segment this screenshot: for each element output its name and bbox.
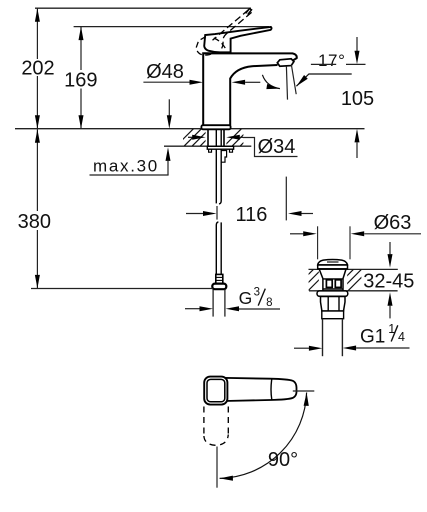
diameter 48 right arrow [232,80,246,85]
diameter 34 leader [243,138,298,157]
G 1 1/4 label and arrows [294,347,310,349]
deck hatching left of faucet shank [176,129,218,147]
waste cap dome [318,260,348,265]
32-45 top arrow [389,242,391,254]
svg-text:G1: G1 [360,327,385,348]
stud break centre segment [216,206,218,220]
handle pivot cap inner [207,379,225,401]
hose nut [212,284,226,290]
202 dimension line [36,8,38,59]
faucet shank in deck hole [207,129,209,146]
dashed raised lever upper edge [213,10,249,40]
105 dimension top tick and arrow [346,63,366,65]
G 3/8 dimension arrows [185,308,200,310]
svg-text:max.30: max.30 [93,156,159,175]
water stream line left [286,66,287,99]
basin deck top line (drain) [309,268,398,270]
supply hose tube [212,289,214,316]
countertop deck top line [15,128,365,130]
svg-text:169: 169 [64,70,97,92]
basin deck bottom line (drain) [309,290,398,292]
waste cap button line [327,261,339,263]
svg-text:3: 3 [254,287,260,299]
faucet body outline [203,53,297,125]
second reference line (169 datum) [74,26,269,28]
svg-text:17°: 17° [318,51,346,70]
svg-text:202: 202 [21,58,54,80]
mounting washer under deck [207,146,233,149]
svg-text:32-45: 32-45 [363,271,414,293]
clamp block on stud [221,151,226,163]
max.30 upper arrow [168,99,170,116]
380 dimension line [36,129,38,211]
basin hatching right of waste [332,269,369,290]
G 3/8 label [239,308,280,310]
faucet lever and cartridge boss [204,27,271,52]
diameter 63 dimension [290,233,303,235]
105 bottom arrow [355,129,360,143]
svg-text:Ø48: Ø48 [146,61,184,83]
handle top view blade [225,378,297,401]
waste coupling [322,311,344,319]
diameter 34 hole dimension arrows [188,136,193,138]
90 deg horizontal tick [293,390,315,392]
overflow slot left [326,280,332,288]
dashed handle rotated down left edge [203,407,205,437]
svg-text:G: G [239,288,253,308]
threaded stud lower segment [216,222,218,275]
thread end section [216,274,223,283]
waste cap rim [318,265,348,269]
svg-text:Ø63: Ø63 [374,212,412,234]
waste tailpiece tube [322,319,324,357]
dashed handle rotated down end cap [204,435,228,446]
diameter 63 extension lines [317,226,319,259]
svg-text:105: 105 [341,88,374,110]
svg-text:380: 380 [18,211,51,233]
dashed handle rotated down right edge [227,407,229,435]
32-45 bottom arrow [388,292,393,306]
waste backnut [321,297,346,312]
dashed rotated boss outline [196,37,215,56]
water stream line right (17 deg) [291,65,296,94]
svg-text:8: 8 [266,297,272,309]
flow arc arrow left [262,75,280,89]
waste body taper [319,269,346,290]
17 deg leader arrow [296,74,351,86]
threaded stud upper segment [215,129,217,203]
aerator at spout tip [277,59,294,66]
svg-text:Ø34: Ø34 [258,136,296,158]
116 dimension [186,213,203,215]
deck hatching right of faucet shank [224,129,258,147]
countertop deck bottom line [164,145,251,147]
svg-text:90°: 90° [268,449,298,471]
90 deg arc with arrows [220,393,307,479]
faucet base flange [201,125,230,129]
overflow slot right [335,280,341,288]
waste overflow slot band [323,278,343,280]
faucet spout underside [230,65,277,125]
basin hatching left of waste [292,269,329,290]
90 deg vertical reference line [216,447,218,488]
svg-text:4: 4 [398,330,405,344]
169 dimension line [80,27,82,70]
svg-text:116: 116 [236,204,268,226]
handle pivot cap outer [204,377,227,405]
dashed rotated lever edge across boss [214,38,226,50]
waste washer under basin [317,291,348,296]
washer side tabs [209,149,212,152]
dashed raised lever lower edge [221,12,252,50]
raised lever tip [246,9,252,15]
handle grip joint [270,379,273,400]
max.30 lower arrow and leader [167,161,169,175]
116 right extension line [285,177,287,221]
380 bottom reference line [31,288,213,290]
top reference line (202 datum) [35,7,251,9]
